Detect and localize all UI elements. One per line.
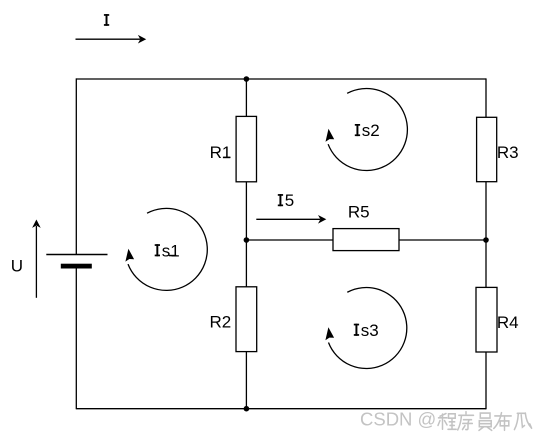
wire: left branch upper (source + to node 1) [75,78,77,254]
current label I (top) [104,14,109,26]
mesh current label Is1 [155,241,180,260]
wire: middle branch from node 1 to R1 [245,79,247,116]
wire: middle branch R1 to node A [245,182,247,287]
svg-text:s3: s3 [361,321,379,340]
watermark CSDN @程序员布瓜 [360,409,532,431]
员 [479,413,492,430]
svg-text:U: U [11,257,23,276]
wire: middle branch R2 to bottom net [245,352,247,409]
node B junction dot (middle right) [483,237,489,243]
svg-text:s2: s2 [362,121,380,140]
wire: top net (node 1) [76,78,486,80]
node 1 junction dot (top) [244,76,250,82]
svg-text:R4: R4 [497,313,519,332]
current arrow I5 [256,215,326,224]
resistor R4 [476,287,497,352]
svg-text:s1: s1 [162,241,180,260]
wire: right branch R4 to bottom net [485,352,487,409]
node 0 junction dot (bottom) [244,406,250,412]
mesh current arrow Is2 [326,89,408,171]
svg-text:5: 5 [285,191,294,210]
resistor R2 [236,287,257,352]
node A junction dot (middle left) [244,237,250,243]
序 [458,412,474,430]
wire: bottom net (node 0) [76,408,486,410]
布 [494,413,511,431]
resistor R1 [236,116,256,181]
wire: node A to R5 [246,239,333,241]
mesh current label Is2 [355,121,380,140]
svg-text:R2: R2 [210,313,232,332]
svg-text:R1: R1 [210,143,232,162]
voltage source U (battery) long plate [46,254,107,256]
current arrow I (top) [76,35,147,44]
wire: right branch R3 to node B [485,182,487,288]
mesh current arrow Is1 [125,208,207,290]
wire: R5 to node B [399,239,486,241]
程 [438,414,447,430]
current label I5 [278,191,294,210]
瓜 [514,413,531,429]
svg-text:R5: R5 [348,203,370,222]
svg-text:R3: R3 [497,143,519,162]
wire: right branch node 1 to R3 [485,78,487,117]
voltage source U (battery) short thick plate [61,264,92,269]
voltage arrow U [32,220,41,298]
wire: left branch lower (source - to bottom net) [75,268,77,409]
resistor R3 [477,117,497,181]
mesh current arrow Is3 [325,288,406,369]
mesh current label Is3 [354,321,379,340]
resistor R5 [333,229,399,251]
svg-text:CSDN @: CSDN @ [360,409,436,430]
